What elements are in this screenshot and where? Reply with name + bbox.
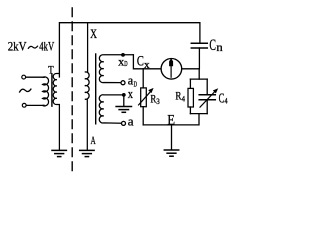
svg-text:3: 3 [156,97,160,106]
svg-text:E: E [167,113,175,129]
svg-text:D: D [124,59,128,68]
svg-text:C: C [209,37,216,54]
svg-text:x: x [144,60,150,71]
svg-text:x: x [118,54,124,68]
svg-text:n: n [216,42,223,54]
svg-text:R: R [175,89,181,103]
svg-text:4: 4 [182,95,185,104]
svg-text:4: 4 [225,97,228,106]
svg-text:4kV: 4kV [39,39,54,54]
svg-text:2kV: 2kV [8,39,27,54]
svg-text:x: x [128,86,134,101]
svg-text:a: a [128,113,134,128]
svg-text:A: A [91,133,96,147]
svg-text:X: X [90,27,97,41]
svg-text:C: C [137,54,144,70]
svg-text:D: D [134,80,138,89]
svg-text:T: T [48,64,54,76]
